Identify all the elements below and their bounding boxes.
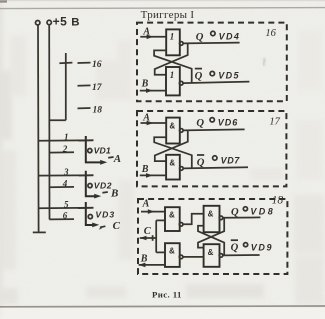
gate DD3.4 body (right bottom) — [204, 244, 220, 267]
cross-coupling: Q to lower gate input (box17) — [155, 130, 188, 161]
svg-text:С: С — [113, 220, 121, 232]
svg-text:VD1: VD1 — [94, 146, 111, 156]
socket circle VD5 — [210, 71, 214, 75]
dashed enclosure box 17 — [137, 111, 286, 186]
gate DD3.3 body (right top) — [204, 206, 220, 232]
dashed enclosure box 16 — [137, 23, 287, 102]
svg-text:1: 1 — [170, 32, 175, 42]
wire: branch pin 3 — [38, 174, 94, 176]
comma tick before C — [99, 228, 102, 230]
socket VD1 vertical lead — [86, 136, 103, 162]
overbar of Qbar (box16) — [195, 68, 202, 70]
wire: right supply rail vertical — [48, 25, 50, 220]
svg-text:VD2: VD2 — [94, 181, 112, 191]
svg-text:4: 4 — [62, 179, 68, 189]
socket VD3 arrowhead to C — [92, 223, 99, 228]
svg-text:&: & — [208, 209, 214, 218]
socket circle VD4 — [211, 31, 215, 35]
svg-text:3: 3 — [63, 167, 69, 177]
svg-text:1: 1 — [64, 132, 69, 142]
svg-text:2: 2 — [62, 144, 68, 154]
gate DD2.2 body — [166, 155, 180, 180]
input B arrowhead (box17) — [146, 173, 153, 178]
wire: pin bus vertical (outputs 16-18) — [65, 53, 67, 120]
svg-text:В: В — [141, 78, 149, 89]
top rule line — [0, 8, 325, 9]
socket VD3 vertical lead — [86, 202, 95, 225]
svg-text:&: & — [208, 248, 214, 257]
gate DD3.3 inversion bubble — [219, 216, 223, 220]
wire: branch pin 1 — [38, 139, 94, 141]
input B wire (box17) — [140, 174, 166, 176]
C bus vertical — [155, 220, 157, 252]
svg-text:VD8: VD8 — [250, 207, 275, 217]
wire: branch pin 2 — [49, 151, 74, 153]
dash before A — [108, 156, 113, 159]
wire Q output (box16) — [183, 42, 240, 45]
wire DD3.2 output to DD3.4 input — [183, 256, 204, 258]
svg-text:&: & — [169, 211, 175, 220]
svg-text:&: & — [169, 247, 175, 256]
svg-text:А: А — [142, 199, 150, 210]
wire: jog from right rail to pin bus — [50, 119, 66, 121]
dash before C — [100, 226, 105, 227]
gate DD2.2 inversion bubble — [180, 167, 184, 171]
svg-text:VD9: VD9 — [251, 243, 273, 253]
gate DD2.1 inversion bubble — [180, 129, 184, 133]
svg-text:В: В — [71, 16, 79, 28]
svg-text:17: 17 — [269, 116, 280, 127]
pin 18 tick — [78, 107, 91, 109]
svg-text:18: 18 — [272, 195, 284, 207]
socket circle VD7 — [213, 156, 217, 160]
gate DD1.2 inversion bubble — [179, 81, 183, 85]
wire: branch pin 6 — [49, 218, 74, 220]
svg-text:Q: Q — [231, 242, 239, 253]
socket VD1 arrowhead to A — [100, 160, 107, 165]
overbar of Qbar (box18) — [231, 239, 238, 241]
gate DD3.4 inversion bubble — [219, 254, 223, 258]
cross-coupling: DD3.3 lower input to Qbar — [198, 226, 224, 255]
svg-text:VD5: VD5 — [218, 71, 240, 81]
socket circle VD3 — [88, 215, 92, 219]
svg-text:&: & — [169, 121, 175, 130]
terminal circle right (+5V) — [47, 20, 51, 24]
wire Q output (box18) — [223, 216, 261, 218]
junction tick on C wire — [152, 235, 154, 241]
wire: branch pin 4 — [49, 186, 74, 188]
socket circle VD8 — [243, 207, 247, 211]
wire DD3.1 output to DD3.3 input — [183, 214, 204, 225]
C bus to gate DD3.1 lower input — [156, 219, 165, 221]
gate DD3.1 inversion bubble — [179, 223, 183, 227]
input C arrowhead (points left) — [140, 236, 147, 241]
svg-text:16: 16 — [92, 60, 102, 70]
svg-text:Q: Q — [196, 118, 204, 129]
junction tick VD3 — [78, 207, 93, 209]
svg-text:18: 18 — [93, 105, 103, 115]
input B arrowhead (points left) — [139, 263, 146, 268]
gate DD1.1 inversion bubble — [180, 42, 184, 46]
input A wire (box17) — [141, 122, 167, 124]
svg-text:5: 5 — [64, 199, 69, 209]
svg-text:&: & — [169, 158, 175, 167]
socket circle VD9 — [244, 243, 248, 247]
junction tick on pin bus — [59, 62, 72, 65]
svg-text:А: А — [113, 153, 121, 165]
socket circle VD2 — [88, 184, 92, 188]
cross-coupling: Q to lower gate input — [155, 43, 188, 74]
socket circle VD6 — [210, 118, 214, 122]
svg-text:А: А — [142, 113, 150, 124]
wire Qbar output (box16) — [183, 82, 249, 84]
stray mark inside box 16 — [263, 59, 265, 66]
cross-coupling: upper gate input to Qbar — [154, 50, 192, 82]
svg-text:С: С — [144, 226, 152, 237]
svg-text:Q: Q — [195, 71, 203, 82]
socket VD2 arrowhead to B — [94, 194, 101, 199]
pin 17 tick — [78, 84, 91, 86]
svg-text:Q: Q — [231, 207, 239, 218]
input A arrowhead — [147, 35, 154, 40]
svg-text:В: В — [140, 253, 148, 264]
svg-text:VD3: VD3 — [95, 209, 115, 219]
svg-text:А: А — [142, 26, 150, 37]
svg-text:VD7: VD7 — [221, 156, 241, 166]
svg-text:16: 16 — [265, 28, 276, 39]
overbar of Qbar (box17) — [197, 154, 204, 156]
input A arrowhead (box18) — [148, 209, 155, 214]
ground bar — [33, 231, 46, 233]
input B wire (box16) — [140, 90, 166, 92]
input A wire (box18) — [141, 211, 165, 213]
socket VD2 vertical lead — [86, 171, 97, 196]
wire Q output (box17) — [183, 129, 245, 130]
wire Qbar output (box17) — [183, 167, 248, 168]
junction tick VD1 — [79, 139, 94, 141]
gate DD3.2 inversion bubble — [179, 255, 183, 259]
svg-text:В: В — [141, 164, 149, 175]
terminal circle left (+5V) — [36, 21, 40, 25]
dash before B — [102, 191, 107, 194]
gate DD1.2 body — [166, 67, 180, 95]
pin 16 tick — [78, 62, 91, 64]
svg-text:1: 1 — [170, 70, 175, 80]
gate DD3.1 body (left top) — [165, 207, 180, 231]
wire: branch pin 5 — [38, 207, 94, 209]
svg-text:+5: +5 — [53, 15, 68, 29]
input B wire (box18) — [139, 264, 165, 266]
cross-coupling: DD3.4 upper input to Q — [198, 218, 224, 248]
dashed enclosure box 18 — [138, 199, 287, 274]
svg-text:Q: Q — [197, 157, 205, 168]
svg-text:Q: Q — [196, 32, 204, 43]
top-left corner mark — [0, 0, 7, 3]
svg-text:17: 17 — [92, 83, 103, 93]
input B arrowhead (box16) — [146, 88, 153, 93]
svg-text:6: 6 — [63, 211, 68, 221]
svg-text:В: В — [110, 188, 118, 200]
junction tick VD2 — [79, 174, 94, 176]
socket circle VD1 — [88, 149, 92, 153]
svg-text:Триггеры I: Триггеры I — [141, 9, 195, 21]
gate DD3.2 body (left bottom) — [165, 243, 180, 267]
C bus to gate DD3.2 upper input — [156, 251, 165, 253]
wire Qbar output (box18) — [223, 254, 260, 256]
input A wire — [140, 36, 166, 38]
svg-text:Рис. 11: Рис. 11 — [152, 290, 182, 300]
gate DD1.1 body — [166, 29, 180, 55]
wire: left supply rail vertical — [37, 25, 40, 231]
cross-coupling: upper gate input to Qbar (box17) — [154, 137, 192, 168]
input C wire (box18) — [140, 237, 157, 239]
svg-text:VD6: VD6 — [218, 118, 239, 128]
bottom rule line — [0, 305, 325, 308]
gate DD2.1 body — [166, 118, 180, 144]
svg-text:VD4: VD4 — [219, 31, 241, 41]
input A arrowhead (box17) — [147, 121, 154, 126]
